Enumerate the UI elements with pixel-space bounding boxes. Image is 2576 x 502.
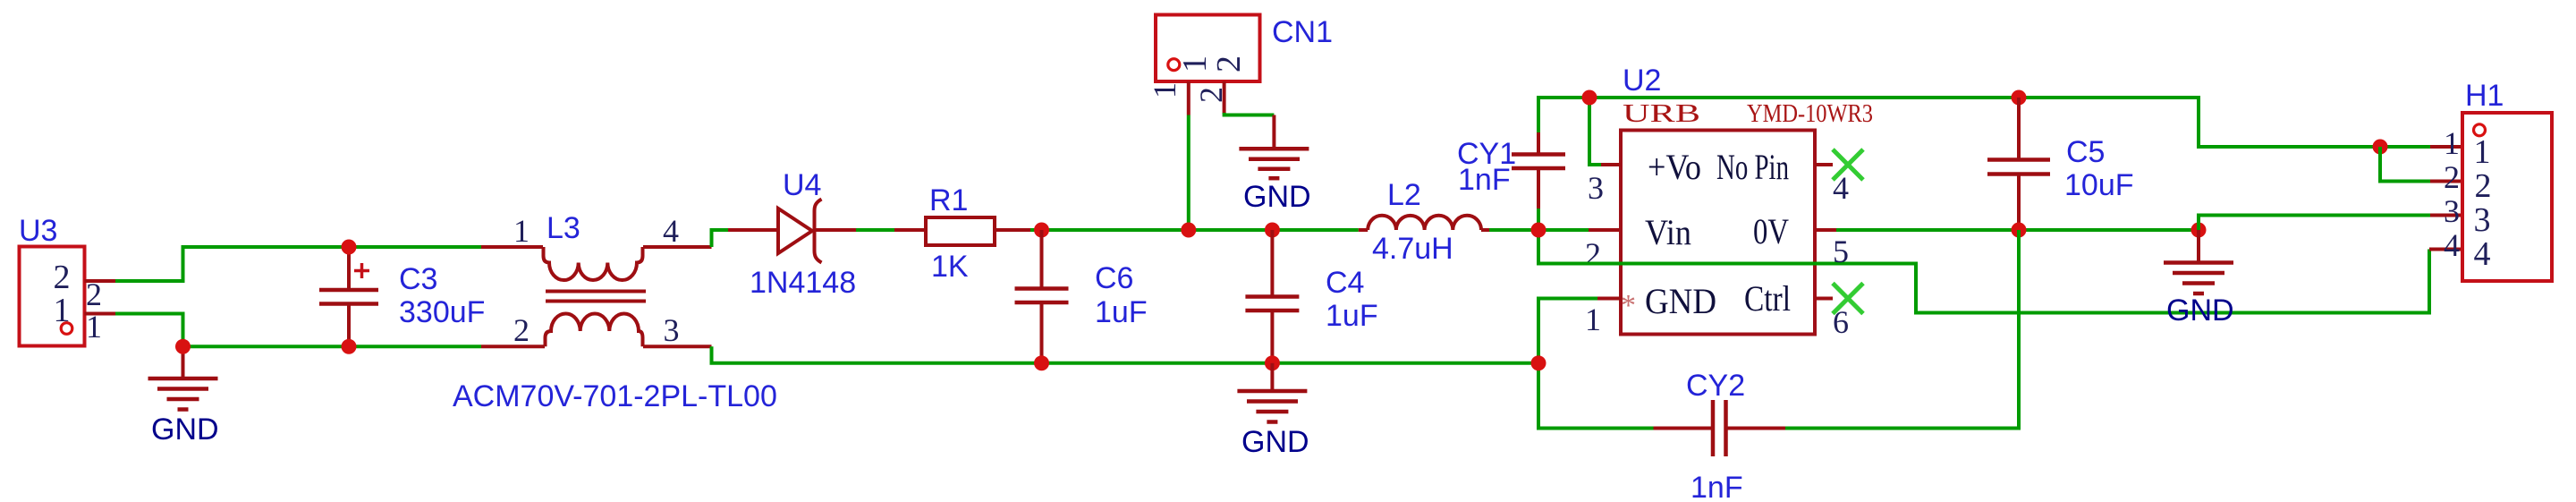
wire H1 pin3 [2199,216,2430,231]
wire H1 pin4 stub [2429,248,2462,251]
svg-text:C6: C6 [1095,261,1133,295]
capacitor CY1 [1512,132,1565,208]
svg-text:4: 4 [663,213,679,249]
wire CN1 pin2 to ground [1224,113,1275,115]
svg-text:C3: C3 [399,262,437,296]
node junction C6 bottom [1034,355,1049,370]
svg-text:2: 2 [1210,55,1248,72]
node junction U3 ground [175,339,191,354]
node junction C3 bottom [342,339,357,354]
svg-text:C4: C4 [1326,266,1364,300]
capacitor C4 [1245,230,1299,363]
node junction C3 top [342,240,357,255]
svg-text:ACM70V-701-2PL-TL00: ACM70V-701-2PL-TL00 [453,379,777,413]
node junction GND tap [2191,223,2207,238]
svg-text:3: 3 [1588,170,1604,206]
ground at U3 [148,346,218,409]
svg-text:L3: L3 [547,211,580,245]
svg-text:1nF: 1nF [1458,163,1511,197]
wire U2 pin3 from top bus [1589,98,1601,165]
wire diode cathode lead [815,228,857,232]
svg-text:6: 6 [1833,304,1849,340]
svg-text:3: 3 [2474,201,2491,239]
wire H1 pin1 stub [2430,145,2462,149]
inductor L3 common-mode choke [481,247,712,346]
inductor L2 [1359,216,1489,230]
svg-text:2: 2 [54,259,71,296]
svg-text:R1: R1 [929,183,968,217]
svg-text:CN1: CN1 [1272,15,1333,49]
svg-text:4: 4 [1833,170,1849,206]
wire bottom row to L3 pin2 [183,345,482,348]
wire H1 pin2 stub [2430,180,2462,183]
wire U2 pin6 stub [1815,297,1833,301]
capacitor C3 [319,247,378,346]
svg-text:URB: URB [1623,100,1700,128]
wire U2 pin2 stub [1589,228,1621,232]
wire U3 pin1 to GND junction [115,314,183,347]
svg-text:1: 1 [1585,302,1601,337]
svg-text:YMD-10WR3: YMD-10WR3 [1747,100,1873,128]
wire U2 pin5 stub [1815,228,1836,232]
wire 0V bus [1836,228,2199,232]
svg-text:1: 1 [2474,133,2491,171]
wire CN1 pin2 stub [1223,81,1226,114]
svg-text:1: 1 [1176,55,1214,72]
wire CY2 right [1785,230,2019,429]
wire under U2 Vin to H1 pin4 [1538,230,2429,313]
capacitor C5 [1987,98,2050,230]
svg-text:1uF: 1uF [1326,299,1378,333]
wire CY2 left [1538,363,1654,429]
svg-text:0V: 0V [1753,211,1789,251]
wire U2 pin3 stub [1601,163,1621,166]
svg-text:1: 1 [513,213,530,249]
node junction U2 pin3 [1582,90,1597,106]
node junction CY1 Vin [1531,223,1546,238]
wire R1 lead right [995,228,1030,232]
svg-text:4: 4 [2444,227,2460,263]
svg-text:330uF: 330uF [399,295,485,329]
wire CY1 to junction [1537,208,1540,230]
capacitor C6 [1015,230,1069,363]
wire top bus R1 to L2 [1030,228,1359,232]
svg-text:GND: GND [1241,425,1309,459]
resistor R1 [926,217,995,245]
no-connect X pin6 [1833,284,1863,314]
wire U3 pin1 stub [85,312,116,316]
ground at C4 [1237,363,1307,422]
node junction C4 bottom [1265,355,1280,370]
wire U3 pin2 to L3 pin1 [115,247,481,281]
wire bottom bus [712,346,1539,363]
wire L3 pin4 to diode [712,230,729,247]
svg-text:2: 2 [513,312,530,348]
node junction CN1 pin1 [1181,223,1196,238]
svg-text:1nF: 1nF [1690,471,1743,502]
diode U4 [778,200,822,263]
no-connect X pin4 [1833,149,1863,180]
svg-text:1: 1 [1147,82,1182,98]
svg-text:CY2: CY2 [1686,369,1745,403]
wire L2 to CY1 junction [1489,228,1538,232]
svg-text:U2: U2 [1623,64,1661,98]
wire U2 pin1 from bottom bus [1538,299,1597,363]
svg-text:2: 2 [2475,167,2492,205]
capacitor CY2 [1654,400,1786,456]
svg-text:GND: GND [151,413,219,447]
svg-text:GND: GND [2166,294,2234,328]
wire H1 pin2 [2380,147,2430,182]
svg-text:*: * [1621,289,1636,322]
svg-text:L2: L2 [1387,178,1421,212]
connector U3 [20,247,103,346]
ground at CN1 pin2 [1239,115,1309,179]
wire CN1 pin1 stub [1187,81,1191,115]
svg-text:1N4148: 1N4148 [750,266,856,300]
node junction R1 C6 [1034,223,1049,238]
svg-text:10uF: 10uF [2064,168,2134,202]
connector CN1 [1147,15,1260,104]
wire +Vo top bus [1538,98,2430,147]
svg-text:2: 2 [2444,159,2460,195]
wire U3 pin2 stub [85,279,116,283]
svg-text:+Vo: +Vo [1648,147,1701,187]
connector H1 [2444,113,2552,281]
ground near C5 [2164,230,2233,294]
wire Vin green [1538,228,1589,232]
wire CN1 pin1 to top bus [1187,115,1191,231]
svg-text:GND: GND [1645,281,1716,321]
svg-text:2: 2 [1585,236,1601,272]
svg-text:GND: GND [1243,180,1311,214]
svg-text:1: 1 [2444,125,2460,161]
wire diode to R1 [856,228,894,232]
svg-text:4: 4 [2474,235,2491,273]
wire R1 lead left [894,228,926,232]
svg-text:4.7uH: 4.7uH [1372,232,1453,266]
svg-text:U3: U3 [19,214,57,248]
node junction C5 bottom CY2 [2012,223,2027,238]
node junction C4 top [1265,223,1280,238]
svg-text:3: 3 [2444,193,2460,229]
svg-text:No Pin: No Pin [1716,147,1789,187]
diode U4 anode lead [728,228,779,232]
svg-text:C5: C5 [2066,135,2105,169]
wire U2 pin4 stub [1815,163,1833,166]
node junction bottom bus CY2 [1531,355,1546,370]
svg-text:Ctrl: Ctrl [1744,278,1791,319]
node junction H1 pin1 pin2 [2373,140,2388,155]
node junction C5 top [2012,90,2027,106]
svg-text:1uF: 1uF [1095,295,1148,329]
svg-text:Vin: Vin [1645,212,1691,252]
module U2 [1621,131,1815,335]
svg-text:1K: 1K [931,250,969,284]
svg-text:5: 5 [1833,234,1849,269]
svg-text:U4: U4 [783,168,821,202]
svg-text:3: 3 [664,312,680,348]
wire U2 pin1 stub [1597,297,1621,301]
svg-text:H1: H1 [2465,79,2504,113]
wire H1 pin3 stub [2430,214,2462,217]
